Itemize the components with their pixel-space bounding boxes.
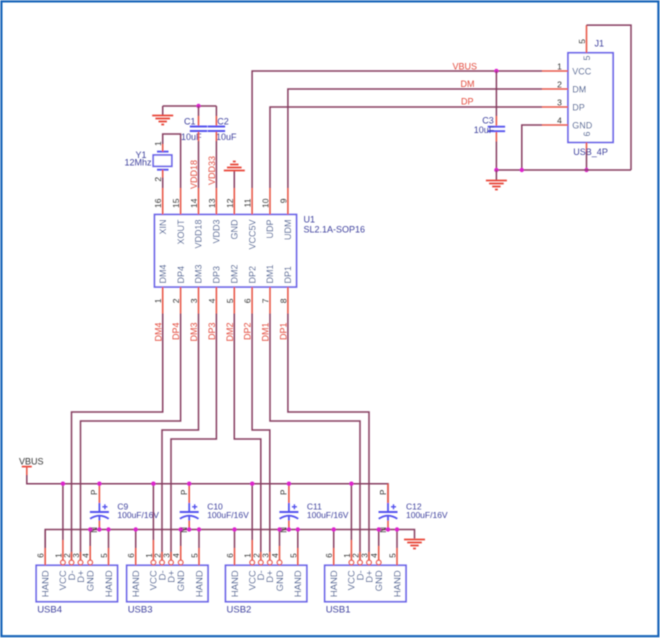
wire USB3 D+ stub [170, 552, 172, 560]
wire USB3 D- stub [161, 552, 163, 560]
svg-text:12Mhz: 12Mhz [125, 158, 153, 168]
U1 pin 12 number [225, 198, 235, 208]
junction USB2 HAND6 [232, 527, 236, 531]
wire net DP2 [252, 314, 270, 561]
svg-text:HAND: HAND [392, 570, 403, 597]
svg-text:N: N [280, 527, 289, 533]
svg-text:DP3: DP3 [207, 323, 217, 341]
svg-text:DM: DM [461, 79, 475, 89]
ground G3 [486, 181, 507, 190]
svg-text:UDP: UDP [265, 220, 275, 239]
svg-text:VBUS: VBUS [453, 62, 478, 72]
USB4 designator [37, 604, 62, 615]
svg-text:DM4: DM4 [153, 323, 163, 342]
junction USB3 HAND6 [134, 527, 138, 531]
junction C9 N [97, 527, 101, 531]
wire C1 to pin14 VDD18 [198, 132, 200, 188]
wire USB2 D- stub [260, 552, 262, 560]
C12 P label [379, 490, 388, 495]
svg-text:U1: U1 [304, 215, 316, 225]
svg-text:VDD18: VDD18 [189, 160, 199, 189]
C9 designator [117, 502, 128, 512]
wire net DM3 [162, 314, 199, 561]
U1 pin 15 name XOUT [176, 219, 186, 245]
svg-text:100uF/16V: 100uF/16V [307, 510, 349, 520]
J1 pin 1 name VCC [572, 66, 592, 76]
U1 value SL2.1A-SOP16 [304, 225, 366, 235]
wire USB4 HAND6 [44, 530, 46, 566]
svg-text:VDD18: VDD18 [194, 220, 204, 249]
C12 designator [406, 502, 422, 512]
svg-text:USB_4P: USB_4P [573, 147, 608, 157]
USB4 pin numbers [37, 553, 109, 558]
U1 pin 8 number [278, 298, 288, 303]
U1 pin 7 stub [269, 287, 271, 314]
wire USB3 GND [180, 530, 182, 561]
junction pin4 gnd rail [520, 168, 524, 172]
svg-text:USB2: USB2 [227, 604, 252, 615]
C1 designator [184, 116, 196, 126]
svg-text:1: 1 [557, 61, 562, 71]
U1 pin 10 number [261, 198, 271, 208]
svg-text:4: 4 [557, 115, 562, 125]
J1 pin 3 number [557, 97, 562, 107]
svg-text:10uF: 10uF [474, 125, 495, 135]
junction C12 N [386, 527, 390, 531]
ground G1 [152, 116, 173, 125]
wire C2 to pin13 VDD33 [215, 132, 217, 188]
junction USB1 VCC [349, 482, 353, 486]
wire USB2 VCC [251, 484, 253, 561]
net label DP3 [207, 323, 217, 341]
svg-text:GND: GND [275, 570, 286, 591]
wire pin12 to ground [233, 171, 235, 189]
U1 pin 13 name VDD3 [212, 220, 222, 244]
capacitor C9 plates [90, 504, 109, 519]
J1 pin 5 name [582, 56, 592, 61]
connector USB2 body [226, 565, 307, 601]
USB1 designator [326, 604, 351, 615]
svg-text:6: 6 [127, 553, 136, 558]
U1 pin 9 number [278, 198, 288, 203]
J1 pin 4 stub [542, 124, 568, 126]
junction USB3 HAND5 [197, 527, 201, 531]
C9 N label [90, 527, 99, 533]
wire Y1 pin2 to XIN [162, 170, 164, 188]
C11 N label [280, 527, 289, 533]
U1 pin 13 stub [215, 188, 217, 215]
wire net DP1 [288, 314, 369, 561]
wire net DM2 [234, 314, 260, 561]
junction C1 top [196, 104, 200, 108]
wire J1 pin6 to gnd rail [586, 151, 588, 170]
U1 pin 5 number [225, 298, 235, 303]
C10 value 100uF/16V [207, 510, 249, 520]
capacitor C9 P stub [98, 484, 100, 512]
U1 pin 11 number [243, 198, 253, 207]
junction C11 N [287, 527, 291, 531]
junction C11 P [287, 482, 291, 486]
svg-text:DP: DP [461, 97, 474, 107]
svg-text:P: P [280, 490, 289, 495]
wire J1 pin4 to gnd rail [522, 125, 542, 170]
J1 pin 4 number [557, 115, 562, 125]
svg-text:4: 4 [172, 553, 181, 558]
junction C3 gnd rail [494, 168, 498, 172]
junction USB2 HAND5 [296, 527, 300, 531]
C2 value 10uF [216, 132, 237, 142]
svg-text:HAND: HAND [230, 570, 241, 597]
junction USB1 HAND5 [395, 527, 399, 531]
C11 value 100uF/16V [307, 510, 349, 520]
J1 pin 2 name DM [572, 84, 586, 94]
U1 pin 10 stub [269, 188, 271, 215]
U1 pin 16 stub [162, 188, 164, 215]
svg-text:P: P [379, 490, 388, 495]
capacitor C11 P stub [288, 484, 290, 512]
USB4 pin names [41, 570, 115, 597]
svg-text:5: 5 [389, 553, 398, 558]
svg-text:SL2.1A-SOP16: SL2.1A-SOP16 [304, 225, 366, 235]
wire USB4 HAND5 [108, 530, 110, 566]
USB4 pin circles [61, 560, 93, 565]
net label DM [461, 79, 475, 89]
capacitor C9 N stub [98, 516, 100, 530]
connector USB4 body [36, 565, 117, 601]
svg-text:HAND: HAND [194, 570, 205, 597]
svg-text:DP4: DP4 [171, 323, 181, 341]
U1 pin 11 stub [251, 188, 253, 215]
U1 pin 1 number [153, 298, 163, 303]
U1 pin 4 name DP3 [212, 266, 222, 284]
svg-text:3: 3 [557, 97, 562, 107]
Y1 pin 2 number [153, 177, 163, 182]
svg-text:14: 14 [189, 198, 199, 208]
U1 pin 3 number [189, 298, 199, 303]
wire USB1 HAND5 [396, 530, 398, 566]
svg-text:UDM: UDM [283, 220, 293, 241]
U1 pin 2 name DP4 [176, 266, 186, 284]
wire USB4 D+ stub [80, 552, 82, 560]
svg-text:DM3: DM3 [189, 323, 199, 342]
C9 P label [90, 490, 99, 495]
svg-text:XIN: XIN [158, 220, 168, 235]
USB3 designator [128, 604, 153, 615]
svg-text:4: 4 [271, 553, 280, 558]
svg-text:6: 6 [226, 553, 235, 558]
C12 value 100uF/16V [406, 510, 448, 520]
svg-text:VDD3: VDD3 [212, 220, 222, 244]
svg-text:7: 7 [261, 298, 271, 303]
wire USB4 GND [89, 530, 91, 561]
capacitor C12 N stub [387, 516, 389, 530]
U1 pin 8 stub [287, 287, 289, 314]
power port VBUS [19, 457, 44, 476]
svg-text:11: 11 [243, 198, 253, 207]
wire USB3 HAND5 [198, 530, 200, 566]
wire USB2 GND [279, 530, 281, 561]
svg-text:5: 5 [225, 298, 235, 303]
U1 pin 3 stub [198, 287, 200, 314]
junction VBUS / C3 [494, 69, 498, 73]
wire Y1 pin1 to XOUT [163, 134, 181, 188]
J1 designator [595, 39, 605, 49]
junction USB4 GND [88, 527, 92, 531]
wire USB3 HAND6 [135, 530, 137, 566]
svg-text:DM2: DM2 [230, 264, 240, 283]
wire USB1 GND [378, 530, 380, 561]
svg-text:C2: C2 [217, 116, 229, 126]
USB3 pin numbers [127, 553, 199, 558]
wire VBUS rail [27, 475, 388, 503]
U1 pin 5 stub [233, 287, 235, 314]
svg-text:N: N [379, 527, 388, 533]
svg-text:6: 6 [325, 553, 334, 558]
net label DP [461, 97, 474, 107]
U1 pin 9 name UDM [283, 220, 293, 241]
svg-text:2: 2 [252, 553, 261, 558]
svg-text:4: 4 [82, 553, 91, 558]
svg-text:DM3: DM3 [194, 264, 204, 283]
capacitor C12 plates [379, 504, 398, 519]
wire net DM4 [72, 314, 163, 561]
U1 pin 3 name DM3 [194, 264, 204, 283]
U1 pin 15 stub [180, 188, 182, 215]
capacitor C11 plates [279, 504, 298, 519]
svg-text:3: 3 [189, 298, 199, 303]
C12 N label [379, 527, 388, 533]
USB2 pin circles [250, 560, 282, 565]
J1 pin 6 stub [586, 142, 588, 151]
svg-text:2: 2 [557, 79, 562, 89]
U1 pin 6 name DP2 [247, 266, 257, 284]
J1 pin 5 number [577, 39, 587, 44]
wire GND rail bottom [45, 530, 414, 566]
U1 pin 2 number [171, 298, 181, 303]
svg-text:DP3: DP3 [212, 266, 222, 284]
U1 pin 16 name XIN [158, 220, 168, 235]
svg-text:DP1: DP1 [279, 323, 289, 341]
connector J1 body [568, 53, 613, 143]
svg-text:N: N [90, 527, 99, 533]
net label VBUS [453, 62, 478, 72]
junction C10 N [187, 527, 191, 531]
svg-text:DP2: DP2 [243, 323, 253, 341]
svg-text:DP: DP [572, 102, 585, 112]
net label DM1 [261, 323, 271, 342]
U1 pin 1 name DM4 [158, 264, 168, 283]
svg-text:6: 6 [37, 553, 46, 558]
Y1 designator [136, 150, 147, 160]
USB3 pin circles [151, 560, 183, 565]
net label DP2 [243, 323, 253, 341]
U1 pin 4 number [207, 298, 217, 303]
svg-text:100uF/16V: 100uF/16V [406, 510, 448, 520]
J1 pin 5 stub [586, 25, 588, 53]
junction USB4 HAND5 [106, 527, 110, 531]
wire USB1 D+ stub [368, 552, 370, 560]
svg-text:9: 9 [278, 198, 288, 203]
U1 pin 1 stub [162, 287, 164, 314]
svg-text:GND: GND [176, 570, 187, 591]
svg-text:HAND: HAND [131, 570, 142, 597]
junction USB1 HAND6 [332, 527, 336, 531]
capacitor C10 plates [180, 504, 199, 519]
svg-text:GND: GND [572, 120, 593, 130]
svg-text:100uF/16V: 100uF/16V [207, 510, 249, 520]
C11 P label [280, 490, 289, 495]
junction USB3 GND [179, 527, 183, 531]
junction USB3 VCC [151, 482, 155, 486]
svg-text:HAND: HAND [104, 570, 115, 597]
svg-text:J1: J1 [595, 39, 605, 49]
svg-text:VCC5V: VCC5V [247, 219, 257, 249]
wire USB2 HAND5 [297, 530, 299, 566]
svg-text:VDD33: VDD33 [207, 156, 217, 185]
U1 pin 16 number [153, 198, 163, 208]
U1 pin 14 name VDD18 [194, 220, 204, 249]
junction J1 pin6 gnd [584, 168, 588, 172]
svg-text:USB4: USB4 [37, 604, 62, 615]
USB1 pin circles [349, 560, 381, 565]
svg-text:USB1: USB1 [326, 604, 351, 615]
svg-text:VCC: VCC [572, 66, 592, 76]
svg-text:16: 16 [153, 198, 163, 208]
connector USB1 body [325, 565, 406, 601]
wire net DM (U1 pin9 to J1 pin2) [288, 89, 542, 188]
U1 pin 7 number [261, 298, 271, 303]
U1 designator [304, 215, 316, 225]
net label VDD18 [189, 160, 199, 189]
wire USB4 D- stub [71, 552, 73, 560]
wire C1 top [198, 106, 200, 126]
U1 pin 6 number [243, 298, 253, 303]
svg-text:P: P [90, 490, 99, 495]
svg-text:2: 2 [171, 298, 181, 303]
J1 value USB_4P [573, 147, 608, 157]
junction USB1 GND [377, 527, 381, 531]
C9 value 100uF/16V [117, 510, 159, 520]
connector USB3 body [127, 565, 208, 601]
svg-text:6: 6 [582, 132, 592, 137]
U1 pin 9 stub [287, 188, 289, 215]
wire J1 pin5 loop [587, 25, 632, 170]
junction C10 P [187, 482, 191, 486]
svg-text:4: 4 [370, 553, 379, 558]
capacitor C1 [190, 127, 207, 132]
C2 designator [217, 116, 229, 126]
wire USB4 VCC [62, 484, 64, 561]
svg-text:GND: GND [86, 570, 97, 591]
capacitor C11 N stub [288, 516, 290, 530]
IC U1 SL2.1A-SOP16 body [155, 215, 297, 288]
net label DM4 [153, 323, 163, 342]
svg-text:P: P [180, 490, 189, 495]
svg-text:2: 2 [63, 553, 72, 558]
net label VDD33 [207, 156, 217, 185]
J1 pin 2 number [557, 79, 562, 89]
wire net VBUS (U1 pin11 to J1 pin1) [252, 71, 542, 188]
junction USB4 VCC [61, 482, 65, 486]
C1 value 10uF [181, 132, 202, 142]
U1 pin 8 name DP1 [283, 266, 293, 284]
wire C3 top [495, 71, 497, 126]
svg-text:3: 3 [72, 553, 81, 558]
svg-text:8: 8 [278, 298, 288, 303]
svg-text:3: 3 [163, 553, 172, 558]
svg-text:2: 2 [352, 553, 361, 558]
svg-text:1: 1 [153, 298, 163, 303]
wire gnd top rail [163, 105, 217, 107]
junction C9 P [97, 482, 101, 486]
crystal Y1 body [153, 152, 172, 170]
svg-text:DM1: DM1 [261, 323, 271, 342]
J1 pin 1 stub [542, 70, 568, 72]
svg-text:1: 1 [153, 141, 163, 146]
svg-text:XOUT: XOUT [176, 219, 186, 245]
svg-text:HAND: HAND [329, 570, 340, 597]
USB2 pin names [230, 570, 304, 597]
U1 pin 7 name DM1 [265, 264, 275, 283]
wire USB1 D- stub [359, 552, 361, 560]
wire USB3 VCC [152, 484, 154, 561]
svg-text:GND: GND [230, 219, 240, 240]
USB1 pin names [329, 570, 403, 597]
U1 pin 11 name VCC5V [247, 219, 257, 249]
capacitor C10 P stub [188, 484, 190, 512]
svg-text:10uF: 10uF [216, 132, 237, 142]
U1 pin 14 number [189, 198, 199, 208]
wire USB2 HAND6 [234, 530, 236, 566]
svg-text:2: 2 [153, 177, 163, 182]
svg-text:5: 5 [289, 553, 298, 558]
svg-text:3: 3 [361, 553, 370, 558]
junction USB2 GND [277, 527, 281, 531]
net label DM3 [189, 323, 199, 342]
svg-text:USB3: USB3 [128, 604, 153, 615]
svg-text:HAND: HAND [293, 570, 304, 597]
svg-text:DM4: DM4 [158, 264, 168, 283]
wire C2 top [215, 106, 217, 126]
svg-text:DM: DM [572, 84, 586, 94]
U1 pin 6 stub [251, 287, 253, 314]
ground G4 [404, 540, 425, 549]
U1 pin 2 stub [180, 287, 182, 314]
wire USB1 VCC [350, 484, 352, 561]
C3 designator [482, 116, 494, 126]
net label DP4 [171, 323, 181, 341]
wire net DP (U1 pin10 to J1 pin3) [270, 107, 542, 188]
U1 pin 12 name GND [230, 219, 240, 240]
Y1 pin 1 number [153, 141, 163, 146]
C11 designator [307, 502, 322, 512]
net label DM2 [225, 323, 235, 342]
svg-text:DP2: DP2 [247, 266, 257, 284]
svg-text:3: 3 [261, 553, 270, 558]
USB2 designator [227, 604, 252, 615]
svg-text:DP4: DP4 [176, 266, 186, 284]
ground stub G3 [495, 170, 497, 181]
U1 pin 5 name DM2 [230, 264, 240, 283]
wire net DP3 [171, 314, 216, 561]
svg-text:15: 15 [171, 198, 181, 208]
wire net DM1 [270, 314, 360, 561]
J1 pin 3 stub [542, 106, 568, 108]
U1 pin 12 stub [233, 188, 235, 215]
wire USB1 HAND6 [333, 530, 335, 566]
U1 pin 14 stub [198, 188, 200, 215]
svg-text:5: 5 [191, 553, 200, 558]
